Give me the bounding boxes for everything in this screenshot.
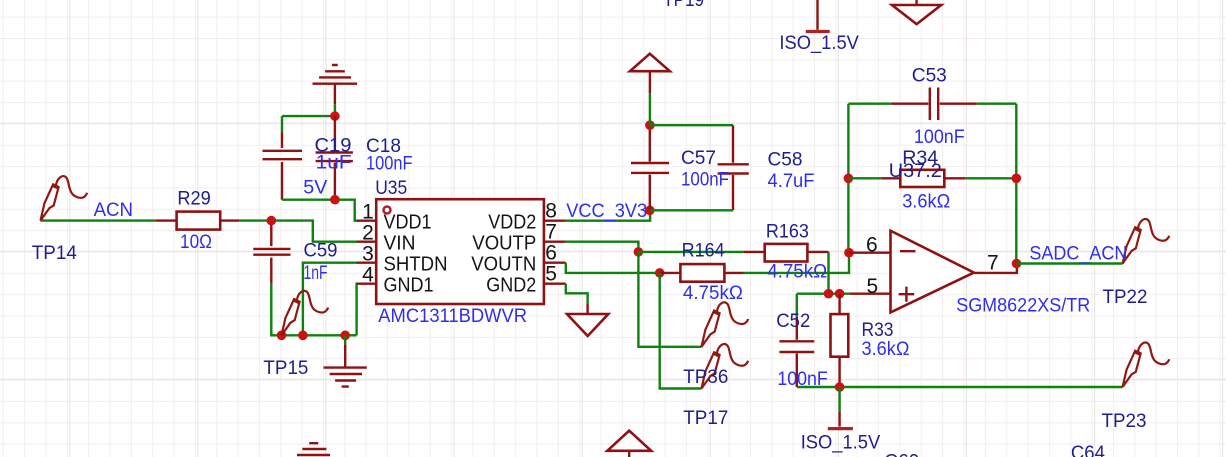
svg-text:7: 7: [987, 251, 999, 274]
resistor R33: [831, 294, 849, 387]
wire ACN from TP14 to R29: [41, 219, 157, 221]
node ACN junction: [267, 216, 277, 226]
svg-text:C58: C58: [768, 149, 803, 171]
junction TP15 tip: [277, 331, 287, 341]
svg-text:TP14: TP14: [32, 242, 77, 264]
earth ground top (5V rail): [313, 65, 358, 116]
wire 5V rail to U35 pin 1: [282, 200, 358, 221]
svg-text:AMC1311BDWVR: AMC1311BDWVR: [378, 305, 527, 327]
junction SHTDN branch: [298, 331, 308, 341]
wire R164 output to op-amp - input node: [744, 253, 850, 273]
junction top node: [330, 111, 340, 121]
junction R33 top: [835, 289, 845, 299]
wire top node to C19 branch: [282, 115, 335, 117]
svg-text:C53: C53: [912, 65, 947, 87]
junction op-amp inverting input node: [844, 248, 854, 258]
junction VOUTN node: [655, 268, 665, 278]
wire VOUTP node to R163: [638, 251, 743, 253]
capacitor C53: [848, 88, 1016, 121]
wire VOUTP pin 7 to node: [566, 242, 639, 252]
svg-text:TP36: TP36: [683, 366, 728, 388]
U35 pin 5 stub: [544, 283, 566, 285]
svg-text:C60: C60: [884, 451, 919, 457]
svg-text:6: 6: [545, 242, 557, 265]
wire VCC top node: [649, 93, 651, 125]
wire feedback left vertical: [847, 104, 849, 253]
wire node ACN to U35 pin 2: [271, 221, 357, 242]
bottom rail to TP23: [797, 386, 1123, 388]
capacitor C18: [316, 116, 353, 200]
junction 5V node: [330, 195, 340, 205]
svg-text:3: 3: [362, 243, 374, 266]
junction VCC top node: [645, 120, 655, 130]
svg-text:VOUTP: VOUTP: [472, 231, 536, 254]
capacitor C59: [253, 225, 290, 284]
svg-text:SGM8622XS/TR: SGM8622XS/TR: [956, 294, 1090, 316]
op-amp/IC U35 body: [376, 199, 544, 304]
wire feedback right vertical: [1015, 104, 1017, 264]
svg-text:100nF: 100nF: [777, 368, 827, 390]
svg-text:5: 5: [545, 263, 557, 286]
wire VOUTN pin 6 to node: [566, 263, 660, 273]
svg-text:R164: R164: [682, 239, 725, 261]
svg-text:10Ω: 10Ω: [180, 231, 212, 253]
wire R29 to node ACN: [239, 219, 271, 221]
svg-text:TP15: TP15: [263, 357, 308, 379]
svg-text:4.75kΩ: 4.75kΩ: [767, 261, 827, 283]
svg-text:GND2: GND2: [486, 273, 536, 296]
junction VCC_3V3 node: [645, 206, 655, 216]
svg-text:SHTDN: SHTDN: [384, 252, 448, 275]
junction R163 to + rail: [824, 289, 834, 299]
U35 pin 6 stub: [544, 262, 566, 264]
svg-text:R29: R29: [177, 188, 210, 210]
U35 pin 1 stub: [357, 219, 376, 221]
ground rail under U35: [270, 334, 357, 336]
svg-text:ISO_1.5V: ISO_1.5V: [779, 32, 859, 54]
wire R163 output down to op-amp + rail: [827, 252, 829, 294]
wire VOUTN node down to TP17: [660, 273, 702, 389]
test point TP17 probe: [702, 344, 749, 389]
svg-text:C59: C59: [304, 240, 338, 262]
svg-text:3.6kΩ: 3.6kΩ: [902, 191, 950, 213]
svg-text:TP23: TP23: [1102, 410, 1147, 432]
test point TP22 probe: [1123, 219, 1170, 264]
U35 pin 3 stub: [357, 262, 376, 264]
svg-text:1nF: 1nF: [304, 262, 328, 284]
svg-text:C52: C52: [776, 310, 810, 332]
svg-text:7: 7: [545, 221, 557, 244]
U35 pin 4 stub: [357, 283, 376, 285]
svg-text:1uF: 1uF: [316, 151, 352, 173]
wire VCC node to C58: [650, 124, 733, 126]
svg-text:6: 6: [866, 234, 878, 257]
svg-text:8: 8: [545, 200, 557, 223]
power symbol VCC_ISO up triangle: [630, 54, 670, 94]
resistor R164: [660, 264, 744, 282]
power symbol up triangle bottom middle: [607, 431, 651, 457]
junction earth branch: [340, 331, 350, 341]
power symbol down triangle top right: [892, 0, 941, 24]
svg-text:U35: U35: [375, 177, 407, 199]
svg-text:5V: 5V: [303, 177, 327, 199]
svg-text:R163: R163: [766, 221, 809, 243]
svg-text:100nF: 100nF: [366, 152, 413, 174]
svg-text:ACN: ACN: [94, 199, 133, 221]
wire SADC_ACN to TP22: [1017, 262, 1123, 264]
capacitor C58: [718, 125, 749, 210]
test point TP14 probe: [41, 176, 88, 221]
wire C59 to ground rail: [270, 284, 272, 335]
wire GND1 pin 4 to ground rail: [355, 284, 358, 336]
junction R34 left: [844, 174, 854, 184]
op-amp pin 5 stub: [849, 293, 890, 295]
svg-text:VDD2: VDD2: [488, 210, 536, 233]
wire SHTDN pin 3 to ground rail: [303, 263, 358, 336]
svg-text:TP19: TP19: [663, 0, 704, 11]
op-amp U37.2: [891, 231, 974, 313]
ground triangle below U35: [567, 304, 608, 336]
svg-text:VCC_3V3: VCC_3V3: [566, 200, 647, 222]
capacitor C52: [779, 294, 814, 387]
test point TP15 probe: [282, 291, 329, 336]
power symbol ISO_1.5V bottom: [828, 387, 853, 429]
junction output node: [1012, 259, 1022, 269]
wire VDD2 pin 8 to VCC node: [566, 210, 650, 220]
U35 pin 7 stub: [544, 240, 566, 242]
U35 pin 2 stub: [357, 240, 376, 242]
svg-text:4: 4: [362, 264, 374, 287]
resistor R34: [848, 170, 1016, 187]
svg-text:4.75kΩ: 4.75kΩ: [683, 282, 743, 304]
test point TP23 probe: [1123, 342, 1170, 387]
junction VOUTP node: [634, 247, 644, 257]
svg-text:VDD1: VDD1: [384, 210, 432, 233]
wire C58 bottom to VCC node: [650, 209, 733, 211]
capacitor C19: [263, 116, 303, 200]
earth ground bottom left partial: [297, 443, 330, 455]
resistor R163: [743, 244, 828, 262]
wire GND2 to iso ground triangle: [566, 284, 588, 304]
svg-text:SADC_ACN: SADC_ACN: [1029, 242, 1127, 264]
power symbol ISO_1.5V top: [806, 0, 830, 32]
svg-text:2: 2: [362, 222, 374, 245]
op-amp output pin 7: [974, 264, 1017, 273]
svg-text:TP17: TP17: [683, 407, 728, 429]
wire VOUTP node down to TP36: [638, 252, 701, 347]
svg-text:100nF: 100nF: [681, 168, 729, 190]
junction R33 bottom: [835, 382, 845, 392]
svg-text:3.6kΩ: 3.6kΩ: [862, 338, 910, 360]
svg-text:GND1: GND1: [384, 273, 434, 296]
test point TP36 probe: [702, 302, 749, 347]
svg-text:VOUTN: VOUTN: [471, 252, 536, 275]
op-amp pin 6 stub: [849, 251, 891, 253]
svg-text:1: 1: [362, 201, 374, 224]
svg-text:ISO_1.5V: ISO_1.5V: [801, 431, 881, 453]
svg-text:VIN: VIN: [384, 231, 416, 254]
U35 pin 8 stub: [544, 219, 566, 221]
svg-text:C64: C64: [1071, 442, 1105, 457]
svg-text:U37.2: U37.2: [889, 160, 942, 182]
svg-text:TP22: TP22: [1103, 286, 1148, 308]
op-amp + input rail: [797, 293, 849, 295]
junction R34 right: [1012, 174, 1022, 184]
resistor R29: [156, 212, 239, 230]
svg-text:C57: C57: [681, 147, 716, 169]
svg-text:5: 5: [867, 275, 879, 298]
svg-text:100nF: 100nF: [914, 126, 965, 148]
earth ground below TP15: [324, 335, 367, 386]
svg-text:4.7uF: 4.7uF: [768, 170, 815, 192]
capacitor C57: [631, 125, 669, 210]
